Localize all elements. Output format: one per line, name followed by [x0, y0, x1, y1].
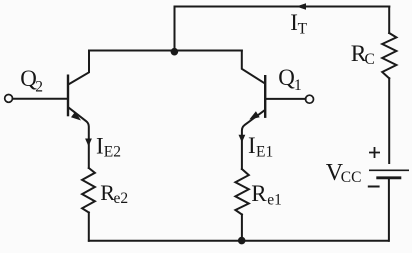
wire Q2 emitter lead — [69, 108, 89, 168]
transistor Q1 emitter arrow — [249, 111, 259, 119]
svg-text:1: 1 — [294, 77, 302, 94]
wire Q2 collector lead — [68, 51, 89, 85]
svg-text:T: T — [298, 21, 308, 38]
svg-text:I: I — [248, 133, 256, 158]
battery minus sign — [368, 186, 380, 188]
wire RC to battery — [388, 78, 390, 163]
wire collector rail — [89, 50, 242, 52]
battery VCC short plate — [376, 176, 401, 179]
wire bottom rail — [89, 240, 389, 242]
svg-text:R: R — [251, 181, 267, 206]
svg-text:e1: e1 — [267, 192, 282, 209]
wire Re2 bottom lead — [88, 213, 90, 241]
battery plus sign — [369, 147, 380, 158]
resistor Re1 — [235, 169, 248, 215]
transistor Q2 emitter arrow — [71, 112, 81, 121]
wire Q1 base lead — [266, 98, 305, 100]
current arrow IT on top rail — [296, 3, 306, 10]
svg-text:Q: Q — [278, 65, 295, 90]
svg-text:CC: CC — [341, 169, 362, 186]
junction dot at bottom rail — [238, 237, 246, 245]
svg-text:2: 2 — [35, 78, 43, 95]
current arrow IE2 — [85, 139, 92, 147]
transistor Q2 base terminal circle — [5, 95, 13, 103]
wire right drop from top rail to RC — [388, 7, 390, 34]
battery VCC long plate — [369, 169, 409, 171]
svg-text:E1: E1 — [256, 144, 273, 161]
junction dot at collector rail — [171, 48, 179, 56]
transistor Q1 base terminal circle — [306, 95, 314, 103]
resistor Re2 — [82, 168, 95, 213]
resistor RC — [382, 33, 396, 78]
svg-text:e2: e2 — [114, 190, 129, 207]
wire Q1 collector lead — [242, 51, 264, 84]
svg-text:E2: E2 — [104, 144, 121, 161]
wire Q2 base lead — [13, 98, 67, 100]
svg-text:I: I — [96, 133, 104, 158]
transistor Q1 base bar — [264, 75, 266, 118]
svg-text:C: C — [365, 51, 375, 68]
current arrow IE1 — [239, 135, 246, 143]
wire top rail — [175, 6, 390, 8]
wire Q1 emitter lead — [242, 110, 265, 169]
wire battery to bottom rail — [388, 179, 390, 241]
wire left drop from top rail to collector rail — [174, 7, 176, 51]
wire Re1 bottom lead — [241, 215, 243, 241]
transistor Q2 base bar — [67, 75, 69, 117]
